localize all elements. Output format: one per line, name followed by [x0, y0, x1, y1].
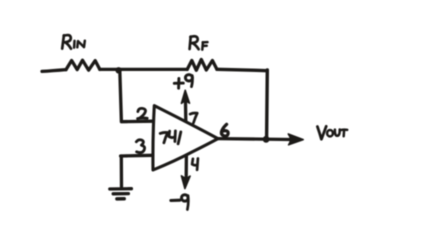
resistor R2 RF	[187, 60, 217, 71]
+9 supply arrow	[181, 90, 189, 121]
node A junction	[115, 67, 121, 73]
wire input lead	[42, 70, 66, 72]
wire node A down to pin 2	[120, 70, 153, 121]
wire output	[218, 137, 290, 141]
pin 2 label	[138, 108, 148, 118]
node B output junction	[263, 136, 270, 143]
pin 6 label	[221, 124, 228, 136]
output arrow	[288, 134, 303, 145]
wire pin 3	[121, 154, 153, 158]
label -9	[171, 195, 188, 210]
label RIN	[62, 35, 85, 49]
wire RIN to RF	[100, 68, 187, 71]
wire feedback vertical	[265, 70, 269, 139]
wire RF to feedback corner	[217, 69, 267, 70]
resistor R1 RIN	[66, 60, 100, 70]
pin 7 label	[190, 113, 197, 123]
label RF	[190, 36, 208, 49]
pin 4 label	[192, 159, 198, 170]
label +9	[174, 75, 192, 89]
pin 3 label	[136, 140, 144, 153]
op-amp U1 741 body	[153, 106, 218, 170]
label 741	[160, 131, 181, 144]
ground	[110, 189, 132, 199]
label VOUT	[317, 126, 347, 139]
wire ground vertical	[120, 156, 123, 187]
-9 supply arrow	[181, 156, 190, 189]
